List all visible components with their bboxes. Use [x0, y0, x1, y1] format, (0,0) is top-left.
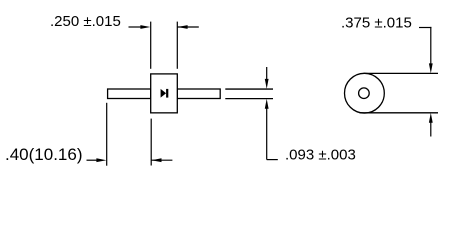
lead continuation line upper: [225, 88, 273, 90]
svg-text:.250 ±.015: .250 ±.015: [50, 13, 121, 30]
end view outer circle: [345, 73, 385, 113]
.40 left arrow: [87, 158, 107, 162]
.250 right arrow: [178, 25, 199, 29]
diode body outline: [151, 74, 178, 113]
left lead (side view): [108, 89, 151, 99]
extension line lead end bottom: [106, 103, 108, 166]
right lead (side view): [177, 89, 220, 99]
diode polarity symbol: [161, 89, 169, 98]
lead continuation line lower: [225, 98, 273, 100]
top tangent extension line: [364, 72, 439, 74]
extension line body right top: [176, 22, 178, 69]
extension line body left bottom: [150, 119, 152, 166]
svg-text:.093 ±.003: .093 ±.003: [285, 147, 356, 164]
svg-text:.375 ±.015: .375 ±.015: [341, 14, 412, 31]
.375 down arrow: [429, 27, 433, 74]
.40 right arrow: [152, 158, 173, 162]
end view lead circle: [359, 88, 370, 99]
bottom tangent extension line: [360, 112, 439, 114]
.375 up arrow: [429, 113, 433, 137]
extension line body left top: [150, 22, 152, 69]
.093 upper arrow pointing down: [265, 67, 269, 89]
.093 lower arrow pointing up with leader: [265, 99, 278, 160]
.375 leader: [419, 27, 431, 29]
.250 left arrow: [129, 25, 151, 29]
svg-text:.40(10.16): .40(10.16): [5, 145, 83, 164]
